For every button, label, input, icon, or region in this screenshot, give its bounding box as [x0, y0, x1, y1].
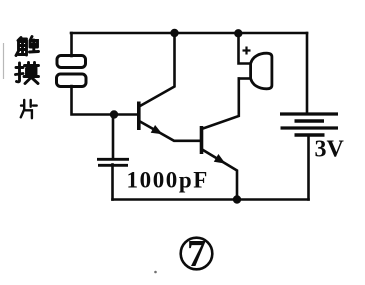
wire battery negative to bottom rail: [307, 135, 310, 200]
node junction bottom rail / Q2 emitter: [233, 195, 241, 203]
figure number circle 7: [181, 238, 213, 270]
node junction at Q1 base / capacitor: [110, 110, 118, 118]
scan artifact faint line left edge: [3, 43, 5, 79]
wire from touch plate down to base node: [72, 86, 138, 115]
label 片 (hand-drawn strokes): [21, 100, 37, 118]
wire speaker upper lead: [239, 34, 251, 64]
label 触 (hand-drawn strokes): [16, 37, 39, 56]
svg-text:1000pF: 1000pF: [127, 168, 209, 193]
wire Q2 emitter to bottom rail: [203, 150, 237, 200]
transistor Q1 base bar: [137, 102, 141, 131]
wire from top rail down to touch plate: [70, 33, 73, 56]
wire Q1 emitter to Q2 base: [140, 122, 200, 141]
speaker (earphone) body: [251, 53, 272, 89]
touch plate lower: [57, 74, 87, 87]
wire bottom rail: [113, 198, 309, 201]
wire Q2 collector to speaker lead: [203, 79, 239, 129]
polarity + sign of speaker: [243, 47, 251, 55]
wire Q1 collector to top rail: [140, 33, 175, 106]
node junction top rail / speaker: [234, 29, 242, 37]
transistor Q1 emitter arrow: [151, 125, 163, 134]
wire right rail from top to battery: [306, 33, 309, 114]
svg-text:7: 7: [187, 233, 206, 275]
node junction top rail / Q1 collector: [170, 29, 178, 37]
scan artifact speck below figure circle: [154, 271, 157, 274]
touch plate upper (of 触摸片 sensor): [57, 56, 86, 68]
wire capacitor bottom branch: [111, 165, 114, 200]
battery 3V plates: [280, 114, 338, 135]
wire top rail: [71, 32, 307, 35]
wire speaker lower lead stub: [239, 77, 250, 80]
wire capacitor top branch: [112, 115, 115, 160]
label 摸 (hand-drawn strokes): [16, 63, 39, 84]
svg-text:3V: 3V: [315, 137, 345, 163]
transistor Q2 base bar: [200, 126, 204, 154]
transistor Q2 emitter arrow: [214, 154, 226, 164]
capacitor C 1000pF plates: [97, 159, 129, 165]
